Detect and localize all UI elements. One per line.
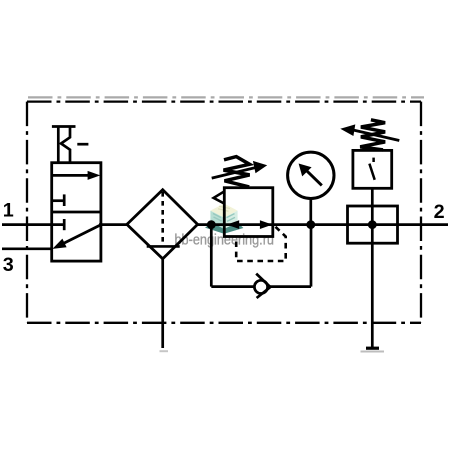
valve V1 body [52, 163, 101, 261]
regulator R1 flow arrow left (return) [227, 220, 240, 229]
wire: main flow line valve to filter [99, 223, 128, 226]
filter F1 diamond [127, 190, 198, 259]
filter F1 water separator line [147, 245, 180, 248]
wire: bypass bottom line [211, 285, 311, 288]
wire: port 1 line into valve [2, 223, 64, 226]
valve V1 bottom box exhaust arrow [61, 225, 101, 245]
node J3 junction dot in R2 [368, 220, 377, 229]
valve V1 top box flow arrow [52, 174, 90, 177]
wire: bypass up to outlet junction [310, 225, 313, 287]
wire: main flow line filter to regulator outlet [196, 223, 273, 226]
valve V1 bottom box blocked port T [63, 219, 66, 230]
regulator R2 spring [360, 120, 385, 150]
valve V1 manual actuator (push-pull with detent) [52, 125, 76, 128]
regulator R1 adjustment arrow [212, 167, 257, 178]
faded grey dash-dot line (top) [28, 96, 424, 98]
node J2 junction dot under gauge [306, 220, 315, 229]
pressure gauge G1 needle [307, 171, 322, 186]
pressure gauge G1 [288, 152, 334, 198]
pressure gauge G1 stem [309, 198, 312, 225]
enclosure dash-dot border [27, 102, 421, 323]
wire: bypass branch down from J1 [210, 225, 213, 287]
svg-text:1: 1 [3, 199, 14, 221]
filter F1 element (dashed) [161, 192, 164, 246]
check valve CV1 [254, 280, 267, 293]
svg-text:2: 2 [434, 201, 445, 223]
wire: regulator to right unit and port 2 [272, 223, 448, 226]
filter F1 drain line [161, 259, 164, 348]
regulator R2 exhaust bar [366, 347, 379, 350]
regulator R1 relief triangle [214, 191, 225, 203]
svg-text:3: 3 [3, 254, 14, 276]
regulator R1 pilot line (dashed) [236, 227, 286, 261]
valve V1 top box blocked port T [52, 199, 64, 202]
filter F1 drain end faint tick [160, 350, 169, 352]
regulator R2 exhaust faint line [361, 351, 385, 353]
regulator R2 adjustment arrow [352, 130, 399, 141]
regulator R2 lower body [348, 206, 398, 243]
watermark logo (isometric book stack) [205, 204, 243, 234]
wire: port 3 line [2, 247, 53, 250]
regulator R1 body [224, 188, 272, 237]
regulator R2 pilot box [353, 150, 392, 188]
node J1 junction dot [207, 220, 216, 229]
regulator R1 spring [224, 157, 250, 187]
regulator R1 flow arrow right (outlet) [260, 220, 273, 229]
wire: R2 vertical line through body to exhaust [371, 188, 374, 348]
valve V1 position divider [52, 211, 101, 214]
regulator R2 pilot box marks [372, 158, 375, 162]
